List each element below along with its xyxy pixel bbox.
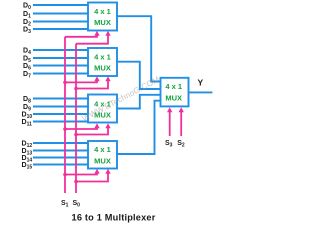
junction S0-U2 [74,87,78,91]
wire U3 output to U5 input 2 [117,95,160,109]
junction S1-U2 [63,81,67,85]
wire D13 [33,150,88,152]
svg-text:4 x 1: 4 x 1 [94,52,111,61]
wire D3 [33,28,88,30]
svg-text:MUX: MUX [94,64,111,73]
svg-text:MUX: MUX [94,156,111,165]
svg-text:S1: S1 [61,200,69,208]
mux U3 [88,95,117,123]
junction S0-U3 [74,133,78,137]
junction S1-U3 [63,127,67,131]
wire S2 to U5 [180,110,182,136]
wire D11 [33,121,88,123]
svg-text:MUX: MUX [165,93,182,102]
wire S1 bus [64,37,66,193]
wire S1 branch to U4 [65,172,97,175]
wire D12 [33,142,88,144]
svg-text:Y: Y [198,78,204,88]
wire D15 [33,164,88,166]
svg-text:4 x 1: 4 x 1 [165,82,182,91]
wire Y output [188,91,213,93]
wire S0 branch to U2 [76,79,108,89]
wire S1 branch to U2 [65,79,97,82]
mux U4 [88,141,117,169]
wire U2 output to U5 input 1 [117,62,160,89]
wire D14 [33,157,88,159]
wire D9 [33,106,88,108]
svg-text:S2: S2 [177,140,185,148]
wire S1 branch to U1 [65,34,97,37]
wire S3 to U5 [169,110,171,136]
mux U1 [88,3,117,31]
junction S1-U4 [63,173,67,177]
svg-text:D11: D11 [22,119,33,127]
svg-text:D3: D3 [23,27,31,35]
wire U1 output to U5 input 0 [117,16,160,81]
svg-text:S0: S0 [73,200,81,208]
svg-text:16 to 1 Multiplexer: 16 to 1 Multiplexer [72,213,156,223]
wire U4 output to U5 input 3 [117,101,160,154]
svg-text:D7: D7 [23,71,31,79]
wire S0 branch to U3 [76,126,108,135]
svg-text:S3: S3 [165,140,173,148]
mux U5 [161,78,189,107]
wire S0 branch to U4 [76,172,108,182]
wire D1 [33,13,88,15]
wire D7 [33,73,88,75]
wire D4 [33,49,88,51]
mux U2 [88,48,117,76]
wire D5 [33,57,88,59]
svg-text:D0: D0 [23,3,31,11]
wire D10 [33,113,88,115]
wire D2 [33,21,88,23]
junction S0-U4 [74,180,78,184]
wire D0 [33,4,88,6]
wire D6 [33,65,88,67]
wire S0 branch to U1 [76,34,108,44]
wire S0 bus [75,44,77,193]
svg-text:4 x 1: 4 x 1 [94,145,111,154]
svg-text:4 x 1: 4 x 1 [94,7,111,16]
wire S1 branch to U3 [65,126,97,129]
wire D8 [33,98,88,100]
svg-text:MUX: MUX [94,18,111,27]
